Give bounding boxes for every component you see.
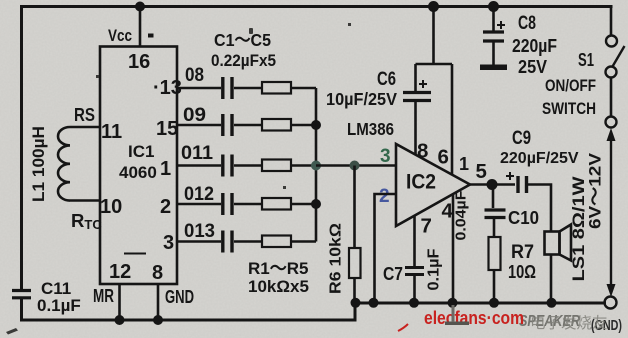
wire R6 bottom — [353, 278, 356, 303]
IC U1: IC1 4060 box — [100, 47, 177, 285]
svg-text:3: 3 — [380, 146, 391, 167]
svg-text:4060: 4060 — [119, 163, 157, 182]
svg-text:RS: RS — [74, 104, 95, 125]
svg-text:1: 1 — [160, 158, 171, 180]
capacitor C10 — [485, 210, 506, 218]
wire pin7 down — [413, 216, 416, 266]
wire C8 bottom lead — [492, 41, 495, 65]
wire pin2 — [375, 194, 397, 303]
svg-text:10µF/25V: 10µF/25V — [326, 89, 397, 109]
wire C5 to R5 — [234, 240, 262, 243]
switch S1 contact 2 — [606, 67, 617, 78]
wire speaker down — [550, 255, 553, 303]
svg-text:10: 10 — [100, 196, 122, 218]
wire pin13 to C1 — [177, 87, 221, 90]
capacitor C1 — [223, 77, 232, 99]
capacitor C3 — [223, 155, 232, 177]
svg-text:C1～C5: C1～C5 — [214, 30, 271, 50]
wire C10 to R7 — [493, 218, 496, 238]
node bus/row2 — [311, 120, 321, 130]
svg-text:R6 10kΩ: R6 10kΩ — [328, 223, 345, 294]
node junction R7/rail — [489, 298, 499, 308]
svg-text:011: 011 — [181, 142, 213, 164]
svg-text:1: 1 — [459, 154, 469, 174]
node junction on top rail above Vcc — [135, 2, 145, 12]
svg-text:0.04µF: 0.04µF — [453, 191, 470, 241]
node junction top rail / C8 — [488, 1, 499, 12]
svg-text:C8: C8 — [518, 13, 536, 34]
svg-text:SWITCH: SWITCH — [542, 100, 596, 118]
wire between contacts — [610, 78, 613, 117]
resistor R7 — [489, 237, 501, 270]
wire C9 to speaker — [527, 185, 552, 232]
svg-text:C9: C9 — [512, 128, 531, 149]
node junction pin4/rail — [448, 298, 458, 308]
svg-text:2: 2 — [160, 196, 171, 218]
resistor R6 — [349, 248, 361, 278]
svg-text:Vcc: Vcc — [108, 27, 132, 45]
node bus/row3 — [311, 161, 321, 171]
svg-text:220µF/25V: 220µF/25V — [500, 150, 579, 167]
mark C6 plus — [419, 80, 427, 88]
mark red swash — [398, 324, 408, 331]
wire C4 to R4 — [234, 203, 262, 206]
svg-text:09: 09 — [183, 104, 206, 126]
terminal circle bottom right — [605, 297, 617, 309]
switch S1 contact 1 — [606, 36, 617, 47]
wire C7 down — [413, 275, 416, 304]
ground symbol C8 — [480, 65, 507, 71]
wire pin6 — [451, 64, 454, 175]
speaker LS1 — [545, 225, 572, 261]
node junction top rail / C6 branch — [428, 1, 439, 12]
wire output pin5 — [470, 183, 515, 186]
mark gray tick below pin4 — [452, 305, 455, 322]
resistor R1 — [262, 82, 291, 94]
wire R4 to bus — [291, 203, 316, 206]
svg-text:elecfans·com: elecfans·com — [424, 307, 524, 328]
wire C8 top lead — [492, 7, 495, 31]
svg-text:GND: GND — [165, 287, 194, 307]
svg-text:ON/OFF: ON/OFF — [545, 77, 596, 95]
wire bottom rail right segment — [355, 302, 605, 305]
wire pin15 to C2 — [177, 124, 221, 127]
wire C1 to R1 — [234, 87, 262, 90]
svg-text:R7: R7 — [511, 242, 534, 263]
svg-text:6: 6 — [438, 146, 449, 169]
wire R7 down — [493, 270, 496, 303]
svg-text:IC2: IC2 — [406, 171, 436, 194]
svg-text:25V: 25V — [518, 57, 547, 77]
wire pin4 down — [452, 194, 455, 303]
svg-text:11: 11 — [101, 121, 122, 143]
wire R5 to bus — [291, 240, 316, 243]
capacitor C7 — [405, 268, 424, 275]
wire pin8 to ground rail — [157, 284, 160, 320]
wire pin2 to C4 — [177, 203, 221, 206]
wire bus to IC2 pin3 — [316, 164, 396, 167]
svg-text:8: 8 — [152, 262, 163, 284]
node junction pin12/rail — [115, 315, 125, 325]
wire bottom rail step — [354, 303, 357, 320]
svg-text:S1: S1 — [578, 50, 594, 70]
wire C2 to R2 — [234, 124, 262, 127]
capacitor C6 — [403, 93, 431, 101]
svg-text:012: 012 — [184, 183, 214, 205]
svg-text:C10: C10 — [508, 207, 539, 228]
node bus/row4 — [311, 199, 321, 209]
wire C6 to pin8 — [414, 101, 417, 155]
svg-text:16: 16 — [128, 51, 150, 73]
wire C6 top lead — [414, 64, 417, 91]
wire Vcc pin16 stub — [139, 7, 142, 47]
node junction pin2/rail — [369, 298, 379, 308]
svg-text:MR: MR — [93, 286, 114, 306]
svg-text:C6: C6 — [377, 68, 396, 90]
svg-text:3: 3 — [163, 232, 174, 254]
wire pin3 to C5 — [177, 240, 221, 243]
speck marks (scan artifacts) — [6, 23, 351, 335]
node junction R6 tap — [350, 161, 360, 171]
capacitor C9 — [518, 176, 527, 193]
wire T horizontal — [416, 63, 453, 66]
op-amp IC2 LM386 triangle — [396, 144, 470, 226]
svg-text:L1 100µH: L1 100µH — [30, 126, 48, 202]
switch S1 contact 3 — [606, 117, 617, 128]
svg-text:6V～12V: 6V～12V — [586, 152, 605, 229]
resistor R4 — [262, 198, 291, 210]
mark dash under pin3 — [124, 253, 146, 255]
wire output bus vertical — [315, 88, 318, 242]
wire R3 to bus — [291, 164, 316, 167]
wire bottom rail left segment — [22, 319, 356, 322]
svg-text:8: 8 — [417, 140, 428, 163]
node junction C7/rail — [409, 298, 419, 308]
wire top rail — [22, 5, 612, 8]
svg-text:电子发烧友: 电子发烧友 — [530, 314, 608, 332]
mark C9 plus — [506, 172, 514, 180]
svg-text:12: 12 — [109, 261, 131, 283]
svg-text:R1～R5: R1～R5 — [248, 259, 308, 278]
mark C8 plus — [497, 21, 505, 29]
inductor L1 — [58, 127, 70, 201]
capacitor C8 — [483, 32, 504, 41]
resistor R2 — [262, 119, 291, 131]
svg-text:LM386: LM386 — [347, 119, 394, 139]
wire C3 to R3 — [234, 164, 262, 167]
node junction speaker/rail — [547, 298, 557, 308]
svg-text:5: 5 — [476, 160, 487, 183]
capacitor C5 — [223, 231, 232, 253]
svg-text:10kΩx5: 10kΩx5 — [248, 277, 309, 296]
resistor R5 — [262, 236, 291, 248]
resistor R3 — [262, 160, 291, 172]
svg-text:15: 15 — [156, 118, 178, 140]
wire C10 top lead — [492, 185, 495, 209]
wire pin11 to coil — [70, 126, 100, 129]
supply arrow line 6V~12V — [607, 128, 616, 297]
svg-text:10Ω: 10Ω — [508, 261, 536, 282]
svg-text:0.22µFx5: 0.22µFx5 — [211, 51, 276, 70]
mark dot right of Vcc wire — [148, 34, 154, 38]
wire pin12 to ground rail — [118, 284, 121, 320]
wire R2 to bus — [291, 124, 316, 127]
wire rail down to T — [432, 7, 435, 65]
svg-text:7: 7 — [421, 215, 432, 238]
wire R6 top — [353, 166, 356, 249]
svg-text:08: 08 — [185, 64, 204, 86]
node junction pin8/rail — [153, 315, 163, 325]
capacitor C11 — [12, 291, 31, 298]
capacitor C2 — [223, 114, 232, 136]
svg-text:C7: C7 — [383, 263, 403, 284]
wire R1 to bus — [291, 87, 316, 90]
svg-text:IC1: IC1 — [128, 142, 154, 161]
wire pin10 to coil — [70, 199, 100, 202]
mark gray dash under logo — [445, 322, 469, 326]
wire C11 bottom stub — [20, 298, 23, 320]
node junction R6/rail — [351, 298, 361, 308]
node junction output — [487, 179, 498, 190]
svg-text:0.1µF: 0.1µF — [426, 249, 443, 291]
switch S1 lever — [613, 46, 625, 67]
svg-text:013: 013 — [184, 220, 215, 242]
wire left rail — [20, 7, 23, 291]
svg-text:2: 2 — [379, 186, 390, 207]
svg-text:220µF: 220µF — [512, 36, 557, 56]
svg-text:0.1µF: 0.1µF — [37, 296, 81, 315]
wire pin1 to C3 — [177, 164, 221, 167]
switch S1: wire from rail — [610, 7, 613, 36]
capacitor C4 — [223, 193, 232, 215]
